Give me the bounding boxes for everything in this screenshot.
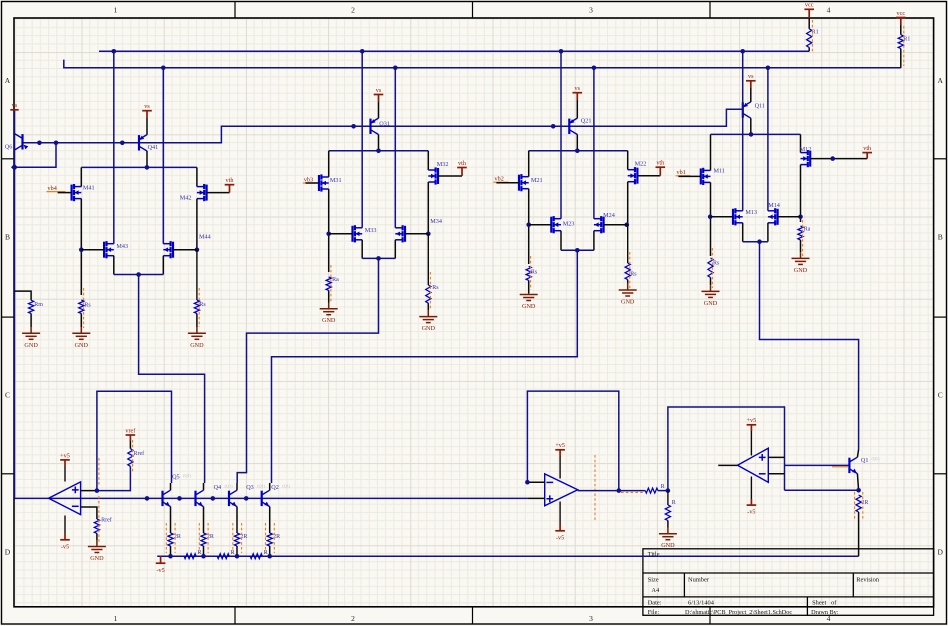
svg-text:R: R — [231, 550, 235, 556]
resistor R (bus Q3-Q2) — [250, 554, 262, 559]
wire Q5 emitter to 2R — [170, 507, 172, 533]
svg-text:3: 3 — [589, 6, 593, 15]
svg-text:Rref: Rref — [134, 450, 145, 457]
power vs (Q21) — [573, 93, 583, 100]
op-amp U3 (right, pointing left) — [738, 448, 769, 482]
wire: block2 collector rail — [529, 150, 628, 152]
ground below Ra block1 — [800, 240, 802, 252]
svg-text:M11: M11 — [714, 168, 725, 175]
orange marker at Rref minus — [98, 496, 100, 542]
resistor Rm — [15, 291, 32, 300]
power vth (block3) — [457, 168, 467, 177]
resistor Rs (block4 left) — [79, 300, 84, 314]
wire M24 gate lead — [604, 224, 628, 226]
orange marker at U1 plus wire — [98, 458, 100, 486]
svg-text:2: 2 — [351, 6, 355, 15]
ground below Rref — [96, 533, 98, 540]
svg-text:Q11: Q11 — [755, 103, 765, 110]
junction on rail 2 — [161, 66, 166, 71]
wire: block3 tail — [361, 240, 363, 259]
junction bottom bus — [235, 554, 240, 559]
svg-text:(Q1): (Q1) — [183, 473, 192, 478]
transistor Q21 — [569, 118, 577, 134]
svg-text:vs: vs — [575, 85, 581, 92]
wire Q31 emitter — [378, 102, 380, 118]
svg-text:Ra: Ra — [804, 227, 811, 233]
wire U3 plus lead — [768, 456, 784, 458]
svg-text:2: 2 — [351, 614, 355, 623]
svg-text:vth: vth — [656, 160, 665, 167]
wire M11 drain link — [710, 134, 712, 170]
wire M21 drain link — [528, 151, 530, 177]
ground below Rs block4 left — [80, 314, 82, 328]
junction R divider — [666, 488, 671, 493]
wire M41 drain link — [80, 167, 82, 186]
wire M42 drain link — [196, 167, 198, 186]
svg-text:-v5: -v5 — [747, 509, 755, 516]
ground below Rs block3 right — [427, 303, 429, 310]
svg-text:M43: M43 — [116, 243, 128, 250]
orange marker 2R — [273, 523, 275, 553]
svg-text:(Q1): (Q1) — [225, 484, 234, 489]
svg-text:M34: M34 — [430, 218, 442, 225]
svg-text:GND: GND — [794, 267, 808, 274]
power vs (Q41) — [142, 111, 152, 118]
wire to Rs — [627, 225, 629, 263]
svg-text:R: R — [264, 550, 268, 556]
wire 2R to bottom bus at Q3 — [236, 546, 238, 556]
wire Q3 collector link — [236, 483, 238, 490]
junction on base bus — [37, 141, 42, 146]
svg-text:R: R — [198, 550, 202, 556]
junction base bus bottom — [145, 496, 150, 501]
power -v5 (U2) — [555, 525, 565, 531]
svg-text:+v5: +v5 — [747, 417, 757, 424]
resistor R1 (left, to vcc) — [808, 17, 810, 29]
svg-text:Rs: Rs — [432, 285, 439, 291]
svg-text:vs: vs — [12, 102, 18, 109]
wire M43 gate lead — [81, 249, 104, 251]
wire: Q6 emitter node to base bus riser — [14, 143, 56, 167]
svg-text:Ra: Ra — [332, 277, 339, 283]
svg-text:GND: GND — [422, 325, 436, 332]
transistor Q4 — [196, 490, 204, 506]
junction on rail 2 — [592, 66, 597, 71]
wire M32 source down to M34 gate — [427, 182, 429, 234]
wire M22 gate to vth — [637, 175, 660, 177]
resistor R (bus Q5-Q4) — [184, 554, 196, 559]
frame zone tick marks — [234, 2, 236, 19]
wire M44 drain from rail2 — [162, 68, 164, 244]
wire M42 source down to M44 gate — [196, 199, 198, 250]
svg-text:vth: vth — [863, 145, 872, 152]
svg-text:vcc: vcc — [897, 10, 906, 17]
svg-text:Q3: Q3 — [246, 484, 254, 491]
svg-text:M22: M22 — [635, 161, 647, 168]
svg-text:D:\shmatic\PCB_Project_2\Sheet: D:\shmatic\PCB_Project_2\Sheet1.SchDoc — [685, 609, 792, 616]
wire vref Rref to U1 plus — [97, 466, 130, 490]
title block — [643, 549, 934, 616]
wire 2R to bottom bus at Q5 — [170, 546, 172, 556]
junction M33 gate — [326, 232, 331, 237]
transistor M34 — [395, 225, 405, 242]
svg-text:Size: Size — [648, 576, 659, 583]
svg-text:GND: GND — [621, 299, 635, 306]
junction on rail 2 — [766, 66, 771, 71]
svg-text:B: B — [5, 233, 10, 242]
op-amp U2 (middle, pointing right) — [545, 474, 578, 506]
svg-text:Q4: Q4 — [214, 484, 222, 491]
wire: top rail 1 (M-3 drain bus) — [99, 50, 809, 52]
resistor Ra (block1 right) — [798, 226, 803, 240]
svg-text:R: R — [661, 484, 665, 490]
junction Q11 collector — [749, 132, 754, 137]
svg-text:Rref: Rref — [101, 517, 112, 524]
power vs (Q11) — [746, 81, 756, 88]
svg-text:R1: R1 — [903, 37, 910, 43]
junction base bus bottom — [211, 496, 216, 501]
wire Q1 emitter down — [857, 474, 858, 491]
resistor 2R at Q5 — [168, 533, 173, 546]
wire: block3 collector rail — [329, 150, 429, 152]
svg-text:GND: GND — [322, 317, 336, 324]
resistor 2R at Q2 — [267, 533, 272, 546]
wire M13 gate lead — [711, 216, 734, 218]
wire Q21 emitter — [576, 100, 578, 118]
transistor Q41 — [139, 135, 147, 151]
svg-text:(Q1): (Q1) — [257, 484, 266, 489]
svg-text:A: A — [937, 76, 943, 85]
orange marker 2R — [232, 523, 234, 553]
orange marker Ra — [802, 220, 804, 256]
junction bottom bus — [201, 554, 206, 559]
svg-text:Rs: Rs — [630, 271, 637, 277]
svg-text:vcc: vcc — [805, 2, 814, 9]
wire: U3 to Q1 base — [785, 464, 851, 466]
wire: block1 tail — [742, 223, 744, 242]
junction M23 gate — [526, 222, 531, 227]
svg-text:M24: M24 — [603, 212, 615, 219]
wire M44 gate lead — [173, 249, 197, 251]
transistor Q31 — [371, 118, 379, 134]
wire -v5 stem U2 — [559, 502, 561, 525]
orange marker right of U2 — [594, 455, 596, 522]
wire U2 minus lead — [527, 481, 544, 483]
svg-text:Rs: Rs — [199, 302, 206, 308]
resistor 2R (right) — [856, 495, 861, 512]
junction on base bus — [54, 141, 59, 146]
svg-text:Q1: Q1 — [861, 457, 869, 464]
wire -v5 stem U1 — [64, 516, 66, 534]
transistor Q3 — [229, 490, 237, 506]
wire: block3 tail to Q3 — [237, 258, 378, 483]
wire U2 plus lead — [528, 497, 545, 499]
svg-text:Title: Title — [648, 551, 660, 558]
transistor Q5 — [163, 490, 171, 506]
junction base bus bottom — [244, 496, 249, 501]
power vth (block1) — [862, 153, 872, 159]
svg-text:Rs: Rs — [531, 269, 538, 275]
junction bottom bus — [267, 554, 272, 559]
resistor 2R at Q3 — [234, 533, 239, 546]
svg-text:(Q1): (Q1) — [282, 484, 291, 489]
ground below Ra — [328, 290, 330, 302]
power vref — [126, 435, 136, 441]
wire M34 gate lead — [405, 233, 428, 235]
wire M22 source down to M24 gate — [627, 182, 629, 225]
orange marker 2R — [198, 523, 200, 553]
wire M42 gate to vth — [207, 192, 230, 194]
svg-text:Sheet of: Sheet of — [812, 600, 837, 607]
junction on rail 1 — [559, 49, 564, 54]
svg-text:vs: vs — [144, 103, 150, 110]
junction block3 tail — [376, 256, 381, 261]
junction on rail 1 — [112, 49, 117, 54]
wire: U2 feedback loop — [527, 391, 618, 491]
power +v5 (U2) — [555, 450, 565, 456]
wire M32 drain link — [427, 151, 429, 170]
svg-text:-v5: -v5 — [556, 534, 564, 541]
wire M32 gate to vth — [438, 175, 462, 177]
power vs (Q31) — [374, 95, 384, 103]
orange marker at R1 right — [903, 26, 905, 66]
svg-text:GND: GND — [190, 342, 204, 349]
wire +v5 stem U3 — [750, 431, 752, 456]
svg-text:A4: A4 — [651, 587, 660, 594]
wire Q41 collector to rail — [146, 151, 148, 168]
orange marker 2R right — [854, 492, 856, 520]
wire: node to U3 plus loop — [668, 407, 785, 491]
wire: block4 tail — [113, 256, 115, 275]
transistor M33 — [353, 225, 363, 242]
svg-text:vb2: vb2 — [495, 176, 504, 183]
svg-text:4: 4 — [827, 6, 831, 15]
svg-text:B: B — [938, 233, 943, 242]
svg-text:Q5: Q5 — [172, 474, 180, 481]
svg-text:-v5: -v5 — [156, 567, 164, 574]
ground below Rs block2 left — [528, 280, 530, 293]
wire R to node — [658, 490, 668, 492]
svg-text:M44: M44 — [199, 233, 211, 240]
wire M33 gate lead — [329, 233, 353, 235]
wire U3 minus lead — [768, 473, 784, 475]
wire U1 minus input lead — [81, 507, 97, 519]
orange marker 2R — [165, 523, 167, 553]
svg-text:Number: Number — [688, 576, 710, 583]
wire +v5 stem U1 — [64, 466, 66, 482]
wire 2R to bottom bus at Q2 — [269, 546, 271, 556]
wire M14 gate lead — [778, 216, 801, 218]
junction on base bus — [120, 141, 125, 146]
wire Q1 collector link — [857, 450, 858, 458]
power +v5 (U3) — [747, 425, 757, 431]
wire M23 drain from rail1 — [560, 51, 562, 218]
wire: bottom base bus through opamp U1 — [15, 497, 528, 499]
power -v5 (U1) — [60, 533, 70, 540]
wire M12 gate to vth — [810, 158, 867, 160]
orange marker on U2 output wire — [621, 491, 644, 493]
wire Q31 collector to rail — [378, 134, 380, 150]
resistor Rs (block2 left) — [526, 266, 531, 280]
wire M21 source down — [528, 189, 530, 264]
resistor Rref (vref branch) — [129, 441, 131, 449]
svg-text:Q6: Q6 — [5, 144, 13, 151]
wire M34 drain from rail2 — [394, 68, 396, 228]
svg-text:Q2: Q2 — [271, 484, 279, 491]
node: diamond junction at left border — [11, 164, 18, 171]
wire M13 drain from rail1 — [742, 51, 744, 211]
junction Q1 emitter — [856, 488, 861, 493]
orange marker Ra — [330, 265, 332, 302]
junction on base bus — [351, 124, 356, 129]
svg-text:M32: M32 — [437, 161, 449, 168]
wire M14 drain from rail2 — [767, 68, 769, 211]
wire to Rs — [427, 234, 429, 285]
svg-text:D: D — [5, 548, 11, 557]
orange marker Rs — [711, 248, 713, 288]
svg-text:D: D — [937, 548, 943, 557]
svg-text:+v5: +v5 — [60, 452, 70, 459]
wire Q2 emitter to 2R — [269, 507, 271, 533]
svg-text:vref: vref — [125, 427, 136, 434]
junction Q41 collector — [145, 165, 150, 170]
wire Q41 emitter — [146, 118, 148, 135]
junction Q31 collector — [376, 149, 381, 154]
orange marker 2R — [241, 523, 243, 553]
svg-text:M33: M33 — [365, 227, 377, 234]
junction M24 gate — [625, 222, 630, 227]
wire Q4 collector link — [203, 483, 205, 490]
resistor 2R at Q4 — [201, 533, 206, 546]
wire Q3 emitter to 2R — [236, 507, 238, 533]
wire Q2 collector link — [269, 483, 271, 490]
junction M13 gate — [708, 214, 713, 219]
wire M21 gate lead — [496, 182, 519, 184]
resistor Rs (block4 right) — [194, 300, 199, 314]
svg-text:vth: vth — [458, 160, 467, 167]
svg-text:GND: GND — [90, 555, 104, 562]
junction U1 plus input — [95, 488, 100, 493]
transistor M21 — [519, 174, 529, 191]
svg-text:vth: vth — [226, 177, 235, 184]
wire: U1 feedback loop to Q5 collector — [97, 391, 172, 490]
wire M23 gate lead — [529, 224, 552, 226]
power -v5 (U3) — [747, 499, 757, 505]
svg-text:1: 1 — [114, 614, 118, 623]
junction block4 tail — [136, 272, 141, 277]
op-amp U1 (left, pointing left) — [49, 482, 81, 515]
svg-text:Rs: Rs — [84, 302, 91, 308]
wire M33 drain from rail1 — [361, 51, 363, 228]
svg-text:+v5: +v5 — [555, 442, 565, 449]
wire: PNP base bus — [23, 109, 743, 143]
wire U3 output stub — [718, 464, 737, 466]
svg-text:3: 3 — [589, 614, 593, 623]
transistor M24 — [594, 216, 604, 233]
resistor R1 (right, to vcc) — [900, 24, 902, 35]
transistor M43 — [104, 241, 114, 258]
svg-text:M13: M13 — [745, 209, 757, 216]
svg-text:M14: M14 — [768, 202, 780, 209]
wire: U3 minus to Q1 emitter — [785, 489, 859, 491]
orange marker Rref — [132, 440, 134, 472]
svg-text:M31: M31 — [330, 177, 342, 184]
power vcc (left) — [804, 9, 814, 18]
junction on rail 2 — [393, 66, 398, 71]
svg-text:M12: M12 — [800, 146, 812, 153]
svg-text:Date:: Date: — [648, 600, 662, 607]
wire: block2 tail to Q2 — [272, 250, 578, 483]
junction Q21 collector — [575, 148, 580, 153]
resistor R (U2 output series) — [645, 488, 658, 493]
ground below Rm — [30, 314, 32, 328]
wire M22 drain link — [627, 151, 629, 170]
wire M41 gate lead — [58, 192, 72, 194]
resistor Rs (block1 left) — [708, 258, 713, 278]
wire: top rail 2 (M-4 drain bus) — [64, 60, 901, 68]
junction bottom bus — [168, 554, 173, 559]
svg-text:GND: GND — [704, 300, 718, 307]
transistor Q2 — [262, 490, 270, 506]
power vth (block4) — [225, 185, 235, 193]
transistor M44 — [163, 241, 173, 258]
svg-text:vb1: vb1 — [677, 169, 686, 176]
wire: block2 tail — [560, 231, 562, 251]
wire: left edge vertical (Q6 collector / Rm / opamp net) — [14, 110, 16, 498]
wire: bottom emitter bus — [157, 555, 858, 557]
svg-text:(Q1): (Q1) — [872, 456, 881, 461]
svg-text:GND: GND — [24, 342, 38, 349]
junction M14 gate — [798, 215, 803, 220]
transistor M11 — [701, 168, 711, 185]
junction on rail 1 — [740, 49, 745, 54]
resistor R (bus Q4-Q3) — [217, 554, 229, 559]
wire M31 gate lead — [306, 182, 320, 184]
wire M12 source down to M14 gate — [800, 165, 802, 222]
wire: block1 tail to Q1 — [760, 242, 859, 450]
svg-text:Rm: Rm — [34, 302, 43, 308]
orange marker 2R right — [862, 492, 864, 520]
power vs (Q6) — [10, 109, 18, 111]
power -v5 (bottom left) — [156, 556, 166, 563]
svg-text:M42: M42 — [180, 194, 192, 201]
wire Q21 collector to rail — [576, 134, 578, 150]
wire +v5 stem U2 — [559, 456, 561, 479]
svg-text:M23: M23 — [563, 221, 575, 228]
wire -v5 stem U3 — [750, 477, 752, 500]
transistor M22 — [628, 167, 638, 184]
svg-text:GND: GND — [661, 542, 675, 549]
svg-text:Q41: Q41 — [148, 144, 159, 151]
wire node to R — [667, 491, 669, 505]
orange marker Rs — [429, 272, 431, 310]
junction block1 tail — [757, 239, 762, 244]
svg-text:6/13/1404: 6/13/1404 — [688, 600, 715, 607]
junction on rail 1 — [360, 49, 365, 54]
orange marker 2R — [174, 523, 176, 553]
svg-text:1: 1 — [114, 6, 118, 15]
transistor M23 — [551, 216, 561, 233]
svg-text:M41: M41 — [83, 184, 95, 191]
wire M43 drain from rail1 — [113, 51, 115, 243]
svg-text:Revision: Revision — [856, 576, 880, 583]
svg-text:Q31: Q31 — [379, 121, 390, 128]
junction M44 gate — [195, 247, 200, 252]
orange marker Rs — [530, 256, 532, 290]
svg-text:A: A — [5, 76, 11, 85]
wire M11 source down — [710, 182, 712, 256]
svg-text:Rs: Rs — [713, 261, 720, 267]
